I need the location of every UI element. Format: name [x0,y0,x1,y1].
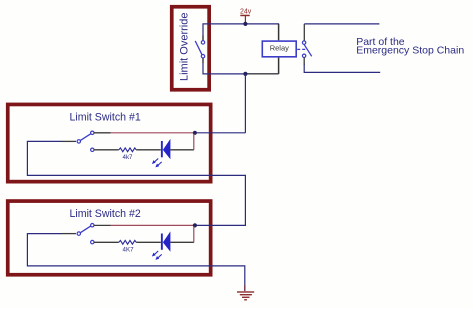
svg-text:Emergency Stop Chain: Emergency Stop Chain [356,44,464,56]
wire loop common box2 [27,234,244,291]
svg-text:Relay: Relay [270,44,289,53]
power symbol 24v [240,9,252,24]
pin NC contact SW2 [94,224,111,226]
wire live NC to node box2 [111,224,194,226]
box Limit Switch #2 [8,201,211,275]
LED D1 [152,139,171,168]
svg-text:24v: 24v [240,9,252,16]
box Limit Switch #1 [8,104,211,181]
pin NO contact SW2 [94,241,119,243]
svg-text:Limit Override: Limit Override [179,13,191,81]
switch SW1 [77,131,94,151]
pin relay coil bottom lead [247,73,279,75]
wire live NC to node box1 [111,132,194,134]
switch SW limit-override [195,41,205,58]
pin SW limit-override top [202,36,204,41]
LED D2 [152,231,171,260]
wire loop common box1 [27,141,245,226]
switch SW2 [77,224,94,244]
node junction box2 [193,223,197,227]
pin common SW1 [62,140,76,142]
node junction 24v on top rail [243,22,247,26]
pin common SW2 [62,233,76,235]
box Limit Override [172,7,209,90]
wire LED2 anode up to node box2 [193,226,195,242]
relay contact RL1 [297,41,312,58]
pin LED1 anode [170,149,194,151]
pin LED2 anode [170,241,194,243]
node junction bottom rail to limit switches [243,72,247,76]
wire top rail left (24v rail) [203,24,279,41]
svg-text:Limit Switch #1: Limit Switch #1 [70,112,141,124]
pin NO contact SW1 [94,149,119,151]
wire bottom rail right segment [303,58,305,66]
svg-text:4k7: 4k7 [123,154,134,161]
pin R2 to LED2 [136,241,161,243]
resistor R1 4k7 [119,148,136,152]
relay coil U1 [262,24,296,74]
wire feeder down to box1 node [244,74,246,133]
pin R1 to LED1 [136,149,161,151]
svg-text:4K7: 4K7 [123,247,135,254]
node junction box1 [193,131,197,135]
svg-text:Limit Switch #2: Limit Switch #2 [70,208,141,220]
pin SW limit-override bottom [202,58,204,63]
label Part of the Emergency Stop Chain [356,36,464,56]
wire node box2 from box1 loop [197,224,246,226]
wire top rail right segment [304,23,379,25]
wire bottom rail left [203,58,279,74]
ground symbol [237,285,254,301]
pin NC contact SW1 [94,132,111,134]
wire node box1 out to feeder [197,132,246,134]
wire LED1 anode up to node box1 [193,134,195,150]
resistor R2 4K7 [119,240,136,244]
